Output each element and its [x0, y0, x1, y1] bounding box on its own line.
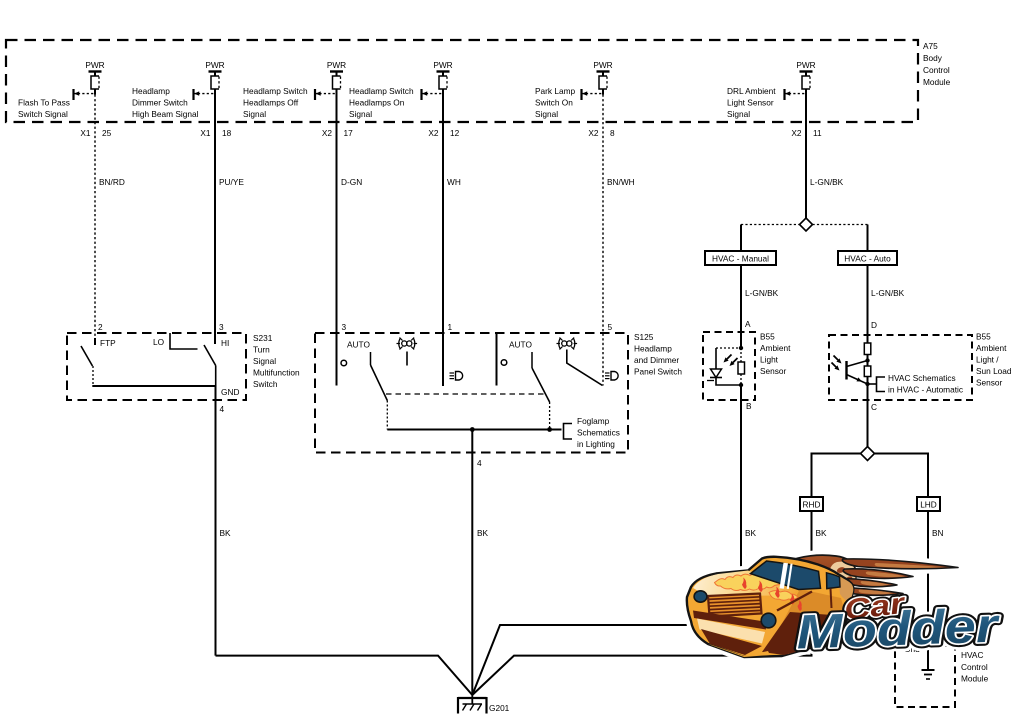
- wire BK from sensor B to ground: [472, 385, 741, 695]
- junction dot B: [739, 383, 743, 387]
- svg-text:8: 8: [610, 128, 615, 138]
- svg-text:S231: S231: [253, 333, 273, 343]
- car body: [687, 557, 853, 657]
- S125 pin 4 wire BK to ground: [471, 430, 473, 696]
- sensor B55 Ambient Light Sensor box: [703, 332, 755, 400]
- parking lamp icon right: [557, 338, 578, 350]
- FTP switch blade: [81, 346, 93, 366]
- wire BN from LHD to HVAC control module: [927, 511, 929, 669]
- svg-text:BK: BK: [816, 528, 828, 538]
- dimmer blade right: [532, 352, 550, 430]
- svg-text:Control: Control: [961, 662, 988, 672]
- svg-text:Sun Load: Sun Load: [976, 366, 1012, 376]
- module HVAC Control Module box: [895, 646, 955, 707]
- branch left to RHD: [812, 454, 861, 498]
- svg-text:Body: Body: [923, 53, 943, 63]
- grille: [708, 594, 762, 617]
- tag box HVAC - Manual: [705, 251, 776, 265]
- phototransistor Q: [847, 361, 868, 385]
- wire from S231 elbow to ground: [216, 656, 473, 695]
- flame base over roof: [788, 555, 856, 595]
- text Modder: [796, 599, 1001, 659]
- svg-text:Schematics: Schematics: [577, 428, 620, 438]
- svg-text:B: B: [746, 401, 752, 411]
- bumper cream strip: [697, 619, 765, 644]
- contact circle O left: [341, 360, 347, 366]
- logo white halo: [687, 555, 1001, 659]
- wire inside BCM pin X2 11: [805, 89, 807, 122]
- module A75 Body Control Module boundary: [6, 40, 918, 122]
- signal arrow 5: [582, 89, 604, 100]
- svg-text:PWR: PWR: [205, 60, 224, 70]
- lower dark shadow: [701, 629, 762, 655]
- svg-text:Signal: Signal: [253, 356, 276, 366]
- svg-text:Headlamp: Headlamp: [634, 344, 672, 354]
- svg-text:X2: X2: [322, 128, 333, 138]
- ground symbol in HVAC control module: [922, 670, 935, 679]
- splice diamond 2: [861, 447, 875, 461]
- wire L-GN/BK to sensor pin D: [867, 265, 869, 343]
- svg-text:X2: X2: [428, 128, 439, 138]
- svg-text:Sensor: Sensor: [760, 366, 787, 376]
- front lower lip: [708, 644, 770, 657]
- svg-text:Ambient: Ambient: [760, 343, 791, 353]
- svg-text:X2: X2: [791, 128, 802, 138]
- parking lamp icon stem left: [406, 352, 408, 366]
- svg-text:RHD: RHD: [803, 500, 821, 510]
- svg-text:S125: S125: [634, 332, 654, 342]
- S231 ground rail: [92, 385, 216, 387]
- svg-text:BN/WH: BN/WH: [607, 177, 635, 187]
- svg-text:4: 4: [220, 404, 225, 414]
- tag box LHD: [917, 497, 940, 511]
- rear deck shading: [838, 577, 853, 604]
- wire inside BCM pin X2 17: [336, 89, 338, 122]
- pin label X2 17: [322, 128, 353, 138]
- junction dot blade right: [547, 427, 552, 432]
- svg-text:HI: HI: [221, 338, 229, 348]
- BCM output driver box pin X2 12: [439, 76, 447, 89]
- bumper crease: [693, 611, 766, 630]
- sensor resistor element: [738, 362, 745, 374]
- wire BK from RHD to ground: [472, 511, 811, 695]
- svg-text:Panel Switch: Panel Switch: [634, 367, 682, 377]
- body side shading: [768, 589, 846, 654]
- splice diamond 1: [800, 218, 813, 231]
- bracket to HVAC schematics: [868, 377, 886, 392]
- svg-text:and Dimmer: and Dimmer: [634, 355, 679, 365]
- svg-text:PWR: PWR: [433, 60, 452, 70]
- dead-end contact (O right): [496, 333, 498, 386]
- dotted wire through resistor: [740, 348, 742, 385]
- HI blade drop: [215, 366, 217, 387]
- svg-text:3: 3: [219, 322, 224, 332]
- power symbol PWR 3: [327, 60, 346, 76]
- label Foglamp Schematics in Lighting: [577, 416, 620, 449]
- headlight left: [694, 591, 707, 602]
- svg-text:AUTO: AUTO: [509, 340, 532, 350]
- svg-text:High Beam Signal: High Beam Signal: [132, 109, 199, 119]
- windshield stripes: [780, 563, 793, 589]
- svg-text:PWR: PWR: [327, 60, 346, 70]
- svg-text:HVAC Schematics: HVAC Schematics: [888, 373, 956, 383]
- wire BN/WH from X2-8 to S125 pin 5 (dotted): [602, 122, 604, 386]
- svg-text:in HVAC - Automatic: in HVAC - Automatic: [888, 385, 963, 395]
- text Car: [842, 588, 908, 627]
- mechanical linkage dashed: [386, 393, 546, 395]
- svg-text:25: 25: [102, 128, 112, 138]
- signal description text 4: [349, 86, 414, 119]
- S231 GND wire pin 4: [215, 386, 217, 656]
- svg-text:X1: X1: [80, 128, 91, 138]
- svg-text:Ambient: Ambient: [976, 343, 1007, 353]
- svg-text:X1: X1: [200, 128, 211, 138]
- headlamp icon right: [605, 372, 618, 381]
- svg-text:Signal: Signal: [349, 109, 372, 119]
- svg-text:Headlamps Off: Headlamps Off: [243, 98, 299, 108]
- svg-text:HVAC - Auto: HVAC - Auto: [844, 254, 891, 264]
- svg-text:BK: BK: [220, 528, 232, 538]
- svg-text:G201: G201: [489, 703, 510, 713]
- wire inside BCM pin X2 8: [602, 89, 604, 122]
- signal description text 6: [727, 86, 776, 119]
- dotted branch left to HVAC-Manual: [741, 224, 800, 226]
- pin label X1 25: [80, 128, 111, 138]
- wire inside BCM pin X2 12: [442, 89, 444, 122]
- svg-text:1: 1: [448, 322, 453, 332]
- junction dot emitter: [865, 382, 869, 386]
- resistor element upper: [864, 343, 871, 355]
- power symbol PWR 2: [205, 60, 224, 76]
- svg-text:Signal: Signal: [243, 109, 266, 119]
- signal description text 2: [132, 86, 199, 119]
- svg-text:C: C: [871, 402, 877, 412]
- label A75 Body Control Module: [923, 41, 951, 87]
- rear lower shadow: [762, 612, 846, 655]
- light arrows into photodiode: [724, 355, 738, 367]
- S125 common rail: [387, 429, 561, 431]
- svg-text:Turn: Turn: [253, 345, 270, 355]
- pin label X2 12: [428, 128, 459, 138]
- parking lamp stem and diagonal to pin 5: [567, 350, 603, 386]
- power symbol PWR 5: [593, 60, 612, 76]
- HI switch blade: [204, 345, 216, 366]
- label S231 Turn Signal Multifunction Switch: [253, 333, 300, 389]
- svg-text:5: 5: [608, 322, 613, 332]
- svg-text:18: 18: [222, 128, 232, 138]
- svg-text:LHD: LHD: [920, 500, 937, 510]
- parking lamp icon left: [397, 338, 418, 350]
- svg-text:Flash To Pass: Flash To Pass: [18, 98, 70, 108]
- svg-text:B55: B55: [976, 332, 991, 342]
- pin label X2 11: [791, 128, 822, 138]
- svg-text:Headlamp Switch: Headlamp Switch: [349, 86, 414, 96]
- svg-text:L-GN/BK: L-GN/BK: [871, 288, 905, 298]
- svg-text:PWR: PWR: [593, 60, 612, 70]
- flame tongue 3: [843, 579, 897, 587]
- light arrows into phototransistor: [832, 356, 842, 371]
- sensor B55 Ambient Light / Sun Load Sensor box: [829, 335, 972, 400]
- wire to HVAC-Manual tag: [740, 225, 742, 252]
- label HVAC Schematics in HVAC - Automatic: [888, 373, 963, 395]
- svg-text:A75: A75: [923, 41, 938, 51]
- svg-text:Headlamp Switch: Headlamp Switch: [243, 86, 308, 96]
- wire D-GN from X2-17 to S125 pin 3: [336, 122, 338, 386]
- svg-text:BK: BK: [745, 528, 757, 538]
- photodiode bottom connection: [716, 378, 741, 386]
- signal arrow 3: [315, 89, 337, 100]
- cowl crease: [777, 592, 812, 611]
- BCM output driver box pin X1 25: [91, 76, 99, 89]
- quarter window: [827, 573, 841, 589]
- headlamp icon left: [450, 372, 463, 381]
- svg-text:Switch Signal: Switch Signal: [18, 109, 68, 119]
- branch right to LHD: [875, 454, 929, 498]
- ground G201: [458, 695, 487, 714]
- power symbol PWR 6: [796, 60, 815, 76]
- signal arrow 6: [785, 89, 807, 100]
- BCM output driver box pin X2 8: [599, 76, 607, 89]
- flame tongue 2: [843, 569, 913, 579]
- tag box RHD: [800, 497, 823, 511]
- photodiode D: [707, 369, 722, 381]
- svg-text:PWR: PWR: [85, 60, 104, 70]
- signal description text 5: [535, 86, 576, 119]
- svg-text:LO: LO: [153, 337, 165, 347]
- tag box HVAC - Auto: [838, 251, 897, 265]
- signal description text 1: [18, 98, 70, 120]
- wire from C to splice diamond 2: [867, 400, 869, 447]
- photodiode branch wire: [715, 348, 717, 369]
- FTP blade dotted drop: [92, 366, 94, 386]
- dotted stub to photodiode branch: [716, 347, 741, 349]
- svg-text:Modder: Modder: [796, 599, 1001, 659]
- junction dot A: [739, 346, 743, 350]
- svg-text:L-GN/BK: L-GN/BK: [745, 288, 779, 298]
- svg-text:Light /: Light /: [976, 355, 999, 365]
- flame base tan blob: [829, 562, 855, 593]
- svg-text:A: A: [745, 319, 751, 329]
- power symbol PWR 1: [85, 60, 104, 76]
- svg-text:Dimmer Switch: Dimmer Switch: [132, 98, 188, 108]
- pin label X1 18: [200, 128, 231, 138]
- svg-text:Light: Light: [760, 355, 779, 365]
- Car Modder watermark logo: [687, 555, 1001, 659]
- svg-text:in Lighting: in Lighting: [577, 439, 615, 449]
- LO contact: [170, 333, 198, 349]
- signal description text 3: [243, 86, 308, 119]
- svg-text:Light Sensor: Light Sensor: [727, 98, 774, 108]
- svg-text:Park Lamp: Park Lamp: [535, 86, 576, 96]
- svg-text:BN/RD: BN/RD: [99, 177, 125, 187]
- BCM output driver box pin X2 11: [802, 76, 810, 89]
- signal arrow 1: [74, 89, 96, 100]
- signal arrow 2: [194, 89, 216, 100]
- svg-text:Module: Module: [923, 77, 951, 87]
- svg-text:GND: GND: [221, 387, 239, 397]
- label HVAC Control Module: [961, 650, 989, 684]
- svg-text:11: 11: [813, 128, 822, 138]
- wire inside BCM pin X1 25: [94, 89, 96, 122]
- switch S125 Headlamp and Dimmer Panel Switch box: [315, 333, 628, 453]
- svg-text:Module: Module: [961, 674, 989, 684]
- pin label X2 8: [588, 128, 615, 138]
- label B55 Ambient Light / Sun Load Sensor: [976, 332, 1012, 388]
- dotted branch right to HVAC-Auto: [813, 224, 868, 226]
- svg-text:BN: BN: [932, 528, 944, 538]
- contact circle O right: [501, 360, 507, 366]
- svg-text:B55: B55: [760, 332, 775, 342]
- hood flame decal: [715, 574, 802, 611]
- svg-text:HVAC - Manual: HVAC - Manual: [712, 254, 769, 264]
- switch S231 Turn Signal Multifunction Switch box: [67, 333, 246, 400]
- svg-text:Multifunction: Multifunction: [253, 368, 300, 378]
- wire WH from X2-12 to S125 pin 1: [442, 122, 444, 386]
- svg-text:PWR: PWR: [796, 60, 815, 70]
- svg-text:Foglamp: Foglamp: [577, 416, 610, 426]
- svg-text:AUTO: AUTO: [347, 340, 370, 350]
- svg-text:Sensor: Sensor: [976, 378, 1003, 388]
- svg-text:12: 12: [450, 128, 460, 138]
- svg-text:Signal: Signal: [727, 109, 750, 119]
- dimmer blade left: [371, 352, 388, 430]
- label B55 Ambient Light Sensor: [760, 332, 791, 377]
- svg-text:D: D: [871, 320, 877, 330]
- wire BN/RD from X1-25 to S231 pin 2 (dotted): [94, 122, 96, 344]
- trailing flames: [788, 555, 958, 595]
- svg-text:D-GN: D-GN: [341, 177, 362, 187]
- junction dot pin 4: [470, 427, 475, 432]
- svg-text:Headlamp: Headlamp: [132, 86, 170, 96]
- svg-text:Headlamps On: Headlamps On: [349, 98, 405, 108]
- headlight right: [761, 613, 776, 628]
- resistor element lower: [864, 366, 871, 377]
- sensor wire through right sensor: [867, 343, 869, 400]
- wire L-GN/BK to sensor pin A: [740, 265, 742, 348]
- junction dot collector: [865, 358, 869, 362]
- power symbol PWR 4: [433, 60, 452, 76]
- svg-text:17: 17: [344, 128, 354, 138]
- BCM output driver box pin X1 18: [211, 76, 219, 89]
- wire L-GN/BK from X2-11 to splice diamond: [805, 122, 807, 219]
- wire to HVAC-Auto tag: [867, 225, 869, 252]
- svg-text:WH: WH: [447, 177, 461, 187]
- svg-text:PU/YE: PU/YE: [219, 177, 244, 187]
- flame tongue 1: [842, 559, 958, 569]
- svg-text:X2: X2: [588, 128, 599, 138]
- flame tongue 4: [842, 588, 903, 596]
- svg-text:Control: Control: [923, 65, 950, 75]
- door crease: [831, 589, 832, 609]
- svg-text:Switch On: Switch On: [535, 98, 573, 108]
- windshield: [751, 561, 821, 590]
- label S125 Headlamp and Dimmer Panel Switch: [634, 332, 682, 377]
- svg-text:DRL Ambient: DRL Ambient: [727, 86, 776, 96]
- hood: [693, 571, 801, 597]
- foglamp bracket: [564, 424, 573, 440]
- BCM output driver box pin X2 17: [333, 76, 341, 89]
- svg-text:BK: BK: [477, 528, 489, 538]
- svg-text:Switch: Switch: [253, 379, 278, 389]
- svg-text:L-GN/BK: L-GN/BK: [810, 177, 844, 187]
- svg-text:3: 3: [342, 322, 347, 332]
- wire inside BCM pin X1 18: [214, 89, 216, 122]
- pin 2 contact tick: [94, 338, 96, 345]
- flame inner highlights: [859, 563, 945, 594]
- wire PU/YE from X1-18 to S231 pin 3: [214, 122, 216, 344]
- signal arrow 4: [422, 89, 444, 100]
- svg-text:FTP: FTP: [100, 338, 116, 348]
- svg-text:Signal: Signal: [535, 109, 558, 119]
- svg-text:4: 4: [477, 458, 482, 468]
- svg-text:2: 2: [98, 322, 103, 332]
